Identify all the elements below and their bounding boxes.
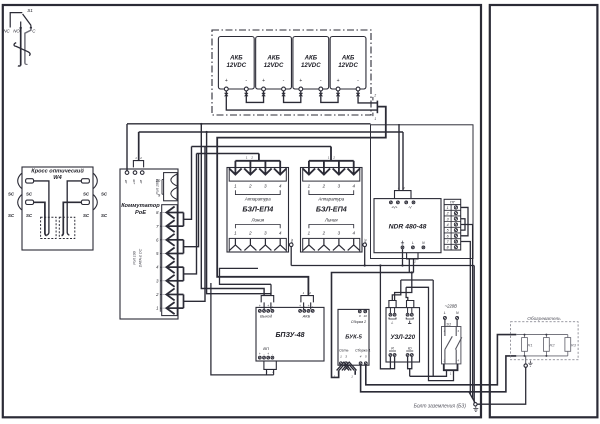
- svg-text:2: 2: [139, 156, 142, 160]
- svg-text:Аппаратура: Аппаратура: [317, 197, 344, 202]
- svg-text:2: 2: [332, 156, 335, 160]
- svg-text:-: -: [263, 352, 264, 356]
- svg-text:R2: R2: [549, 343, 555, 348]
- svg-text:Кросс оптический: Кросс оптический: [31, 168, 84, 175]
- svg-text:+: +: [259, 304, 261, 308]
- svg-text:12VDC: 12VDC: [264, 62, 284, 69]
- svg-text:-: -: [245, 78, 247, 84]
- svg-text:NC: NC: [3, 28, 10, 33]
- svg-text:2: 2: [322, 183, 326, 188]
- svg-text:+: +: [267, 352, 269, 356]
- svg-text:ПТ: ПТ: [450, 201, 456, 205]
- svg-text:SC: SC: [8, 192, 15, 197]
- svg-text:Port 100: Port 100: [133, 251, 137, 265]
- svg-text:SC: SC: [101, 213, 108, 218]
- svg-text:R3: R3: [571, 343, 577, 348]
- svg-text:+: +: [337, 78, 340, 84]
- svg-text:Сеть: Сеть: [339, 348, 349, 352]
- svg-text:АКБ: АКБ: [341, 55, 355, 62]
- svg-text:2: 2: [322, 231, 326, 236]
- svg-text:+: +: [299, 78, 302, 84]
- svg-text:+: +: [259, 352, 261, 356]
- svg-text:2: 2: [248, 231, 252, 236]
- svg-text:Ю: Ю: [408, 346, 412, 350]
- svg-text:5: 5: [447, 229, 449, 233]
- svg-text:1: 1: [374, 117, 376, 121]
- svg-text:~220В: ~220В: [445, 303, 457, 308]
- svg-text:-48: -48: [124, 180, 128, 185]
- svg-text:3: 3: [447, 217, 449, 221]
- svg-text:SC: SC: [83, 213, 90, 218]
- svg-text:12VDC: 12VDC: [301, 62, 321, 69]
- svg-text:SC: SC: [26, 213, 33, 218]
- svg-text:R: R: [391, 346, 394, 350]
- svg-text:БПЗУ-48: БПЗУ-48: [275, 332, 304, 339]
- svg-text:SC: SC: [83, 192, 90, 197]
- svg-text:АКБ: АКБ: [304, 55, 318, 62]
- svg-text:-: -: [272, 352, 273, 356]
- svg-text:NDR 480-48: NDR 480-48: [389, 224, 427, 231]
- svg-text:L: L: [444, 311, 446, 315]
- svg-text:-: -: [357, 78, 359, 84]
- svg-text:2: 2: [250, 156, 253, 160]
- svg-text:БУК-5: БУК-5: [345, 335, 362, 341]
- svg-text:Аппаратура: Аппаратура: [244, 197, 271, 202]
- svg-text:Выход: Выход: [260, 314, 273, 319]
- svg-text:-48: -48: [139, 180, 143, 185]
- svg-text:Обогреватель: Обогреватель: [527, 316, 561, 322]
- svg-text:SC: SC: [101, 192, 108, 197]
- svg-text:2: 2: [373, 93, 376, 97]
- svg-text:Болт заземления (БЗ): Болт заземления (БЗ): [414, 404, 467, 410]
- svg-text:L: L: [392, 321, 394, 325]
- svg-text:АКБ: АКБ: [302, 314, 311, 319]
- svg-text:АКБ: АКБ: [266, 55, 280, 62]
- svg-text:12VDC: 12VDC: [338, 62, 358, 69]
- svg-text:+V+: +V+: [391, 205, 397, 209]
- svg-text:БЗЛ-ЕП4: БЗЛ-ЕП4: [316, 205, 347, 214]
- svg-text:+: +: [299, 304, 301, 308]
- svg-text:1: 1: [156, 306, 158, 311]
- svg-text:SC: SC: [26, 192, 33, 197]
- svg-text:6: 6: [447, 234, 449, 238]
- svg-text:-: -: [312, 304, 313, 308]
- svg-text:S1: S1: [446, 322, 451, 327]
- svg-text:2: 2: [308, 291, 311, 295]
- svg-text:1: 1: [447, 206, 449, 210]
- svg-text:8: 8: [447, 246, 449, 250]
- svg-text:R1: R1: [528, 343, 533, 348]
- svg-text:+48: +48: [132, 179, 136, 184]
- svg-text:+: +: [225, 78, 228, 84]
- svg-text:Сборка 2: Сборка 2: [351, 320, 366, 324]
- svg-text:-: -: [272, 304, 273, 308]
- svg-text:4: 4: [447, 223, 449, 227]
- svg-text:-: -: [283, 78, 285, 84]
- svg-text:+: +: [267, 304, 269, 308]
- svg-text:L: L: [412, 241, 414, 245]
- svg-text:БЗЛ-ЕП4: БЗЛ-ЕП4: [242, 205, 273, 214]
- svg-text:NO: NO: [13, 28, 20, 33]
- svg-text:Линия: Линия: [250, 217, 264, 222]
- svg-text:АКБ: АКБ: [229, 55, 243, 62]
- svg-text:W4: W4: [53, 175, 62, 181]
- svg-text:УЗЛ-220: УЗЛ-220: [390, 334, 415, 341]
- svg-text:DATA & DC: DATA & DC: [139, 248, 143, 267]
- svg-text:+: +: [262, 78, 265, 84]
- svg-text:-: -: [320, 78, 322, 84]
- svg-text:2: 2: [248, 183, 252, 188]
- svg-text:2: 2: [446, 212, 449, 216]
- svg-text:N: N: [456, 311, 459, 315]
- svg-text:10: 10: [364, 314, 368, 318]
- svg-text:SC: SC: [8, 213, 15, 218]
- svg-text:Сборка 1: Сборка 1: [355, 348, 370, 352]
- svg-text:ВП: ВП: [263, 346, 269, 351]
- svg-text:Коммутатор: Коммутатор: [121, 203, 160, 209]
- svg-text:+: +: [308, 304, 310, 308]
- svg-text:РоЕ: РоЕ: [135, 210, 146, 216]
- svg-text:Port 1000: Port 1000: [155, 179, 159, 195]
- svg-text:Линия: Линия: [324, 217, 338, 222]
- svg-text:S1: S1: [27, 8, 33, 13]
- svg-text:12VDC: 12VDC: [226, 62, 246, 69]
